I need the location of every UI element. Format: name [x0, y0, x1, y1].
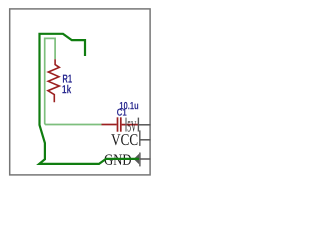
capacitor C1 left plate: [117, 117, 119, 131]
label R1: [63, 75, 72, 83]
pin GND lead: [140, 158, 151, 160]
port 5V left bar: [125, 118, 127, 132]
label C1 value 10.1u: [120, 102, 138, 109]
border frame: [10, 9, 150, 175]
wire R1-C1 net (thin light green): [45, 38, 102, 124]
port 5V text: [128, 121, 137, 131]
port VCC text: [111, 134, 137, 145]
port 5V right bar: [137, 118, 139, 132]
label C1: [117, 109, 127, 116]
port VCC bar: [139, 130, 141, 146]
wire VCC net (thick green: top run, right drop, left drop, bottom run to GND pin): [39, 34, 139, 164]
port GND text: [105, 154, 131, 164]
capacitor C1 right plate: [120, 117, 122, 131]
port GND bar: [139, 153, 141, 167]
pin 5V lead: [138, 124, 150, 126]
label 1k: [62, 85, 71, 93]
resistor R1: [48, 59, 59, 102]
sheet background: [0, 0, 162, 185]
port GND arrowhead: [134, 154, 140, 165]
capacitor C1 left lead: [102, 124, 117, 126]
capacitor C1 right lead: [122, 124, 138, 126]
pin VCC lead: [140, 139, 151, 141]
